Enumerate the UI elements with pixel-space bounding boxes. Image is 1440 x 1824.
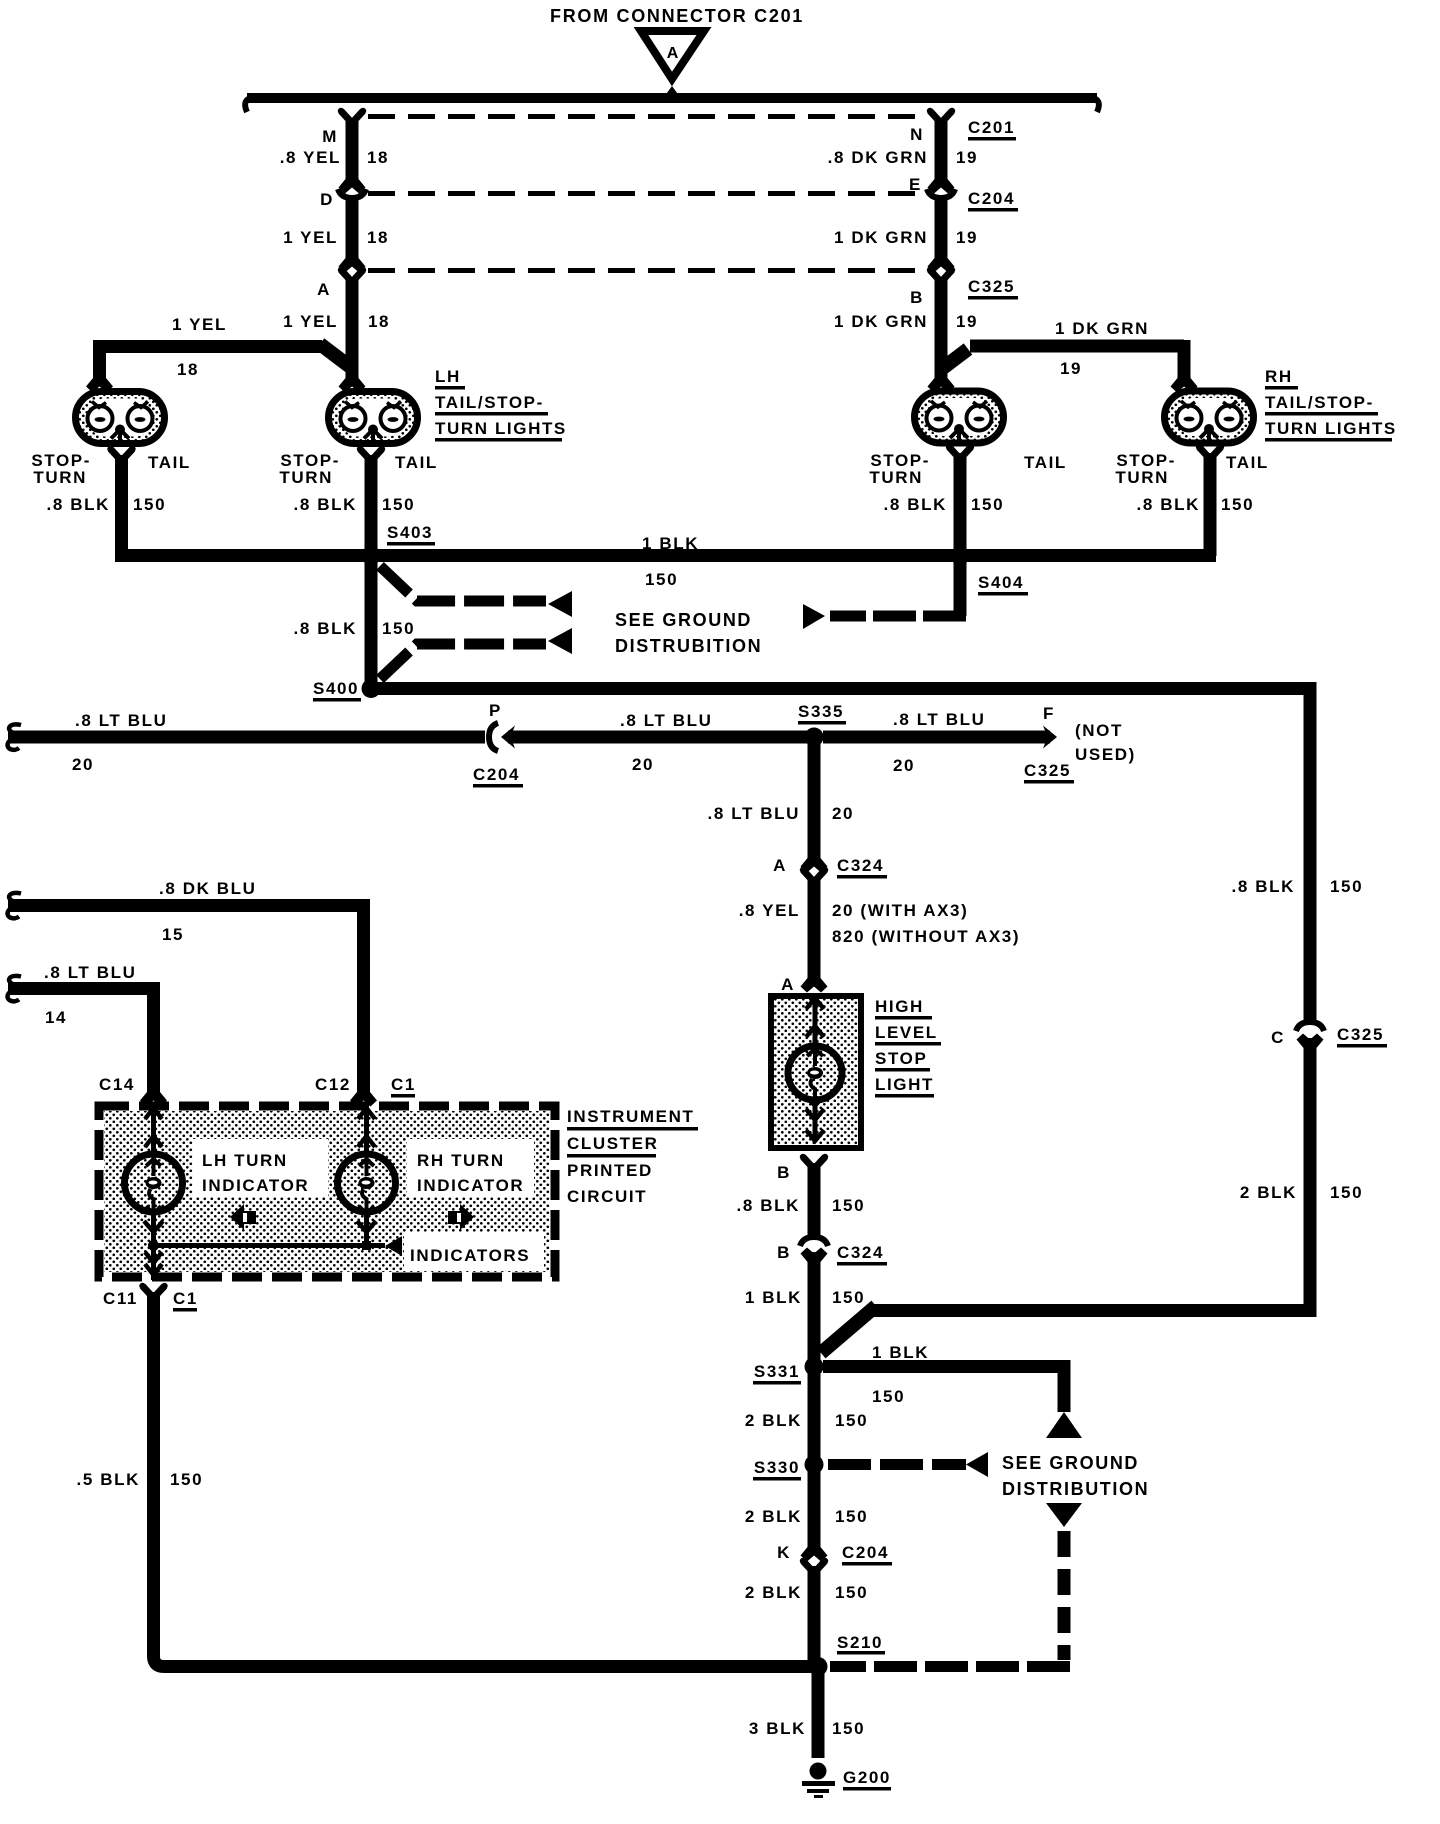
svg-text:.8 LT BLU: .8 LT BLU [708, 804, 800, 823]
svg-text:HIGH: HIGH [875, 997, 924, 1016]
svg-text:M: M [322, 127, 338, 146]
svg-text:C325: C325 [1024, 761, 1071, 780]
svg-text:.8 DK GRN: .8 DK GRN [828, 148, 928, 167]
svg-text:.5 BLK: .5 BLK [77, 1470, 140, 1489]
svg-text:150: 150 [835, 1507, 868, 1526]
dashed ground lead lower from S400 [380, 628, 572, 679]
connector K (C204) female half [800, 1558, 828, 1573]
svg-text:TURN LIGHTS: TURN LIGHTS [1265, 419, 1397, 438]
lamp2 ground drop .8 BLK 150 [365, 455, 378, 550]
svg-text:TAIL: TAIL [148, 453, 191, 472]
svg-text:TURN: TURN [1115, 468, 1169, 487]
svg-text:C324: C324 [837, 1243, 884, 1262]
lamp1 labels STOP-TURN TAIL [31, 451, 191, 487]
svg-text:S210: S210 [837, 1633, 883, 1652]
ground bus wire [115, 549, 1216, 562]
dashed connector row C325 [368, 268, 928, 273]
stop light ground fork B [800, 1154, 828, 1169]
bus wire from connector A [245, 93, 1099, 112]
connector B (C325) female half [927, 267, 955, 282]
svg-text:.8 YEL: .8 YEL [280, 148, 341, 167]
lamp4 ground drop .8 BLK 150 [1204, 453, 1217, 556]
svg-text:C1: C1 [391, 1075, 416, 1094]
svg-text:C204: C204 [968, 189, 1015, 208]
svg-text:B: B [777, 1163, 791, 1182]
svg-text:2 BLK: 2 BLK [745, 1583, 802, 1602]
svg-text:150: 150 [382, 619, 415, 638]
LH arrow icon [230, 1204, 256, 1230]
svg-text:S404: S404 [978, 573, 1024, 592]
svg-text:(NOT: (NOT [1075, 721, 1123, 740]
lamp1 ground drop .8 BLK 150 [115, 455, 128, 556]
svg-text:.8 BLK: .8 BLK [47, 495, 110, 514]
connector K (C204) male half [801, 1533, 828, 1562]
svg-text:TAIL: TAIL [395, 453, 438, 472]
svg-text:C201: C201 [968, 118, 1015, 137]
svg-text:DISTRIBUTION: DISTRIBUTION [1002, 1479, 1149, 1499]
svg-text:.8 LT BLU: .8 LT BLU [44, 963, 136, 982]
svg-text:18: 18 [367, 228, 389, 247]
svg-text:B: B [910, 288, 924, 307]
lamp3 ground drop .8 BLK 150 [954, 453, 967, 550]
wire N to E (.8 DK GRN) [935, 118, 948, 176]
LH indicator lower wire [144, 1212, 163, 1280]
wire C204 to S335 .8 LT BLU 20 [512, 731, 814, 744]
connector D (C204) female half [338, 189, 366, 198]
lamp3 ground fork [946, 444, 974, 459]
text 20 (WITH AX3) 820 (WITHOUT AX3) [832, 901, 1020, 946]
svg-text:DISTRUBITION: DISTRUBITION [615, 636, 762, 656]
svg-text:1 YEL: 1 YEL [283, 228, 338, 247]
dashed ground lead upper from S403 [380, 566, 572, 617]
connector C (C325) male half [1297, 1034, 1324, 1063]
splice S335 [798, 702, 846, 747]
svg-text:F: F [1043, 704, 1055, 723]
label C204 [473, 765, 523, 788]
right side vertical .8 BLK 150 [1304, 682, 1317, 1022]
svg-text:INDICATOR: INDICATOR [417, 1176, 524, 1195]
svg-text:LEVEL: LEVEL [875, 1023, 938, 1042]
svg-text:C1: C1 [173, 1289, 198, 1308]
connector N terminal (fork) [927, 108, 955, 123]
label plate LH TURN INDICATOR [193, 1139, 328, 1197]
svg-text:TAIL: TAIL [1024, 453, 1067, 472]
svg-text:.8 BLK: .8 BLK [737, 1196, 800, 1215]
label plate INDICATORS [404, 1232, 544, 1270]
svg-text:3 BLK: 3 BLK [749, 1719, 806, 1738]
svg-text:19: 19 [1060, 359, 1082, 378]
wire M to D (.8 YEL) [346, 118, 359, 176]
svg-text:LH: LH [435, 367, 461, 386]
svg-text:S330: S330 [754, 1458, 800, 1477]
svg-text:C324: C324 [837, 856, 884, 875]
svg-text:TAIL/STOP-: TAIL/STOP- [435, 393, 544, 412]
label C324 [837, 1243, 887, 1266]
main lt blu row: clip end [8, 724, 21, 749]
svg-text:A: A [667, 45, 680, 62]
svg-text:150: 150 [832, 1719, 865, 1738]
lamp2 labels STOP-TURN TAIL [279, 451, 438, 487]
svg-text:.8 LT BLU: .8 LT BLU [620, 711, 712, 730]
svg-text:150: 150 [1221, 495, 1254, 514]
connector C (C325) female half [1296, 1022, 1324, 1031]
wire S331 to S330 2 BLK 150 [808, 1367, 821, 1460]
lamp1 ground fork [107, 446, 135, 461]
svg-text:20: 20 [632, 755, 654, 774]
S330 dashed ground lead [828, 1452, 988, 1477]
lamp4 labels STOP-TURN TAIL [1115, 451, 1269, 487]
label RH TAIL/STOP-TURN LIGHTS [1265, 367, 1397, 442]
svg-text:14: 14 [45, 1008, 67, 1027]
label LH TAIL/STOP-TURN LIGHTS [435, 367, 567, 442]
connector M terminal (fork) [338, 108, 366, 123]
svg-text:TAIL/STOP-: TAIL/STOP- [1265, 393, 1374, 412]
ground G200 [802, 1763, 835, 1799]
svg-text:150: 150 [1330, 1183, 1363, 1202]
svg-text:1 BLK: 1 BLK [745, 1288, 802, 1307]
connector P (C204) male half [501, 726, 520, 749]
indicators terminal triangle [385, 1236, 402, 1256]
svg-text:20: 20 [832, 804, 854, 823]
svg-text:LH TURN: LH TURN [202, 1151, 288, 1170]
svg-text:20 (WITH AX3): 20 (WITH AX3) [832, 901, 968, 920]
svg-text:.8 LT BLU: .8 LT BLU [893, 710, 985, 729]
svg-text:150: 150 [835, 1583, 868, 1602]
svg-text:S403: S403 [387, 523, 433, 542]
wire S400 to right side run [371, 689, 1304, 696]
svg-text:N: N [910, 125, 924, 144]
RH indicator internal wire top [358, 1108, 375, 1156]
branch wire to RH outer lamp [939, 340, 1184, 372]
svg-text:C204: C204 [842, 1543, 889, 1562]
connector E (C204) female half [927, 189, 955, 198]
svg-text:18: 18 [177, 360, 199, 379]
svg-text:C12: C12 [315, 1075, 351, 1094]
svg-text:CIRCUIT: CIRCUIT [567, 1187, 647, 1206]
lamp1 LH outer tail/stop/turn light [76, 392, 165, 447]
RH indicator lower wire [357, 1212, 376, 1243]
lamp4 ground fork [1196, 444, 1224, 459]
stop light internal wire and bulb [788, 997, 842, 1142]
instrument cluster box [99, 1106, 555, 1277]
off-page triangle A [641, 31, 704, 97]
wire C11 down .5 BLK 150 [154, 1292, 813, 1667]
svg-text:S335: S335 [798, 702, 844, 721]
S404 drop and dashed ground lead [803, 562, 966, 629]
dk blu row: clip end [8, 893, 21, 918]
high level stop light box [771, 996, 861, 1148]
svg-text:.8 BLK: .8 BLK [294, 619, 357, 638]
svg-text:19: 19 [956, 228, 978, 247]
dashed connector row C204 [368, 191, 928, 196]
svg-text:INSTRUMENT: INSTRUMENT [567, 1107, 694, 1126]
wire to C204 .8 LT BLU 20 [8, 731, 485, 744]
svg-text:18: 18 [367, 148, 389, 167]
svg-text:S400: S400 [313, 679, 359, 698]
svg-text:1 DK GRN: 1 DK GRN [1055, 319, 1149, 338]
wire .8 LT BLU 14 to C14 [8, 982, 154, 1086]
svg-text:S331: S331 [754, 1362, 800, 1381]
svg-text:150: 150 [133, 495, 166, 514]
LH turn indicator bulb [125, 1154, 183, 1214]
svg-text:A: A [773, 856, 787, 875]
svg-text:FROM CONNECTOR C201: FROM CONNECTOR C201 [550, 6, 804, 26]
splice S330 [753, 1455, 824, 1481]
svg-text:TURN LIGHTS: TURN LIGHTS [435, 419, 567, 438]
wire C204 to S210 2 BLK 150 [808, 1566, 821, 1662]
splice S404 [951, 546, 1029, 596]
svg-text:1 DK GRN: 1 DK GRN [834, 312, 928, 331]
indicators common wire [148, 1240, 385, 1251]
svg-text:150: 150 [645, 570, 678, 589]
wire S335 down .8 LT BLU 20 [808, 744, 821, 852]
label C325 [1337, 1025, 1387, 1048]
RH arrow icon [448, 1204, 474, 1230]
right side wire to S331 [821, 1306, 876, 1353]
connector A (C324) female half [800, 867, 828, 882]
lamp2 ground fork [357, 446, 385, 461]
LH indicator internal wire top [145, 1108, 162, 1156]
svg-text:.8 BLK: .8 BLK [1232, 877, 1295, 896]
label C1 [173, 1289, 198, 1312]
splice S210 [809, 1633, 886, 1676]
svg-text:CLUSTER: CLUSTER [567, 1134, 658, 1153]
terminal F arrow (not used) [1038, 726, 1057, 749]
connector P (C204) female half [489, 723, 498, 751]
splice S400 [313, 679, 381, 702]
svg-text:.8 LT BLU: .8 LT BLU [75, 711, 167, 730]
svg-text:C325: C325 [968, 277, 1015, 296]
svg-text:RH TURN: RH TURN [417, 1151, 505, 1170]
svg-text:150: 150 [872, 1387, 905, 1406]
svg-text:1 YEL: 1 YEL [172, 315, 227, 334]
svg-text:150: 150 [832, 1196, 865, 1215]
svg-text:A: A [317, 280, 331, 299]
label G200 [843, 1768, 891, 1791]
label C201 [968, 118, 1016, 141]
svg-text:150: 150 [832, 1288, 865, 1307]
connector C11 fork [139, 1283, 167, 1298]
text (NOT USED) [1075, 721, 1136, 764]
svg-text:C325: C325 [1337, 1025, 1384, 1044]
svg-text:STOP: STOP [875, 1049, 927, 1068]
svg-text:150: 150 [170, 1470, 203, 1489]
label C324 [837, 856, 887, 879]
svg-text:C204: C204 [473, 765, 520, 784]
svg-text:1 YEL: 1 YEL [283, 312, 338, 331]
svg-text:2 BLK: 2 BLK [745, 1411, 802, 1430]
svg-text:G200: G200 [843, 1768, 891, 1787]
lamp4 RH outer tail/stop/turn light [1165, 391, 1254, 446]
svg-text:C: C [1271, 1028, 1285, 1047]
svg-text:PRINTED: PRINTED [567, 1161, 653, 1180]
svg-text:18: 18 [368, 312, 390, 331]
S331 branch to ground distribution [823, 1367, 1082, 1439]
splice S403 [362, 523, 436, 565]
svg-text:INDICATOR: INDICATOR [202, 1176, 309, 1195]
terminal arrow C12 [350, 1078, 377, 1107]
svg-text:USED): USED) [1075, 745, 1136, 764]
connector D (C204) male half [339, 165, 366, 194]
svg-text:150: 150 [1330, 877, 1363, 896]
connector B (C325) male half [928, 244, 955, 273]
svg-text:20: 20 [893, 756, 915, 775]
svg-text:A: A [781, 975, 795, 994]
branch wire to left stop lamp [93, 340, 353, 372]
svg-text:19: 19 [956, 312, 978, 331]
right side vertical 2 BLK 150 [872, 1038, 1310, 1311]
svg-text:INDICATORS: INDICATORS [410, 1246, 530, 1265]
terminal arrow into lamp1 [86, 364, 113, 393]
splice S331 [753, 1357, 824, 1385]
svg-text:TURN: TURN [869, 468, 923, 487]
wire C324 to stop light .8 YEL [808, 877, 821, 966]
svg-text:SEE GROUND: SEE GROUND [615, 610, 752, 630]
terminal arrow into stop light [801, 964, 828, 993]
svg-text:TAIL: TAIL [1226, 453, 1269, 472]
svg-text:1 DK GRN: 1 DK GRN [834, 228, 928, 247]
connector B (C324) female half [800, 1237, 828, 1246]
svg-text:SEE GROUND: SEE GROUND [1002, 1453, 1139, 1473]
connector E (C204) male half [928, 165, 955, 194]
svg-text:2 BLK: 2 BLK [1240, 1183, 1297, 1202]
terminal arrow C14 [140, 1078, 167, 1107]
wire A down to LH lamp [346, 277, 359, 371]
text SEE GROUND DISTRIBUTION [1002, 1453, 1149, 1499]
label C204 [842, 1543, 892, 1566]
svg-text:820 (WITHOUT AX3): 820 (WITHOUT AX3) [832, 927, 1020, 946]
wire D to A (1 YEL) [346, 196, 359, 252]
terminal arrow into lamp3 [928, 364, 955, 393]
svg-text:150: 150 [971, 495, 1004, 514]
svg-text:K: K [777, 1543, 791, 1562]
label INSTRUMENT CLUSTER PRINTED CIRCUIT [567, 1107, 698, 1206]
dashed ground distribution return [830, 1503, 1082, 1667]
svg-text:.8 BLK: .8 BLK [1137, 495, 1200, 514]
label C204 [968, 189, 1018, 212]
label C325 [968, 277, 1018, 300]
svg-text:.8 YEL: .8 YEL [739, 901, 800, 920]
svg-text:150: 150 [835, 1411, 868, 1430]
svg-text:RH: RH [1265, 367, 1293, 386]
lamp3 labels STOP-TURN TAIL [869, 451, 1067, 487]
wire C324 to S331 1 BLK 150 [808, 1252, 821, 1365]
svg-text:D: D [320, 190, 334, 209]
svg-text:20: 20 [72, 755, 94, 774]
svg-text:2 BLK: 2 BLK [745, 1507, 802, 1526]
label HIGH LEVEL STOP LIGHT [875, 997, 941, 1098]
lamp2 LH inner tail/stop/turn light [329, 392, 418, 447]
label C1 [391, 1075, 416, 1098]
svg-text:LIGHT: LIGHT [875, 1075, 934, 1094]
wire S335 to F .8 LT BLU 20 [823, 731, 1042, 744]
wire S210 to G200 3 BLK 150 [812, 1670, 825, 1758]
text SEE GROUND DISTRUBITION [615, 610, 762, 656]
svg-text:E: E [909, 175, 922, 194]
wire S330 to C204 2 BLK 150 [808, 1469, 821, 1540]
svg-text:TURN: TURN [33, 468, 87, 487]
terminal arrow into lamp4 [1171, 364, 1198, 393]
svg-text:C14: C14 [99, 1075, 135, 1094]
svg-text:P: P [489, 701, 502, 720]
svg-text:19: 19 [956, 148, 978, 167]
connector B (C324) male half [801, 1248, 828, 1277]
connector A (C324) male half [801, 844, 828, 873]
svg-text:1 BLK: 1 BLK [872, 1343, 929, 1362]
wire S403 to S400 .8 BLK 150 [365, 562, 378, 689]
connector A (C325) female half [338, 267, 366, 282]
svg-text:.8 DK BLU: .8 DK BLU [159, 879, 257, 898]
lamp3 RH inner tail/stop/turn light [915, 391, 1004, 446]
svg-text:B: B [777, 1243, 791, 1262]
wire .8 DK BLU 15 to C12 [8, 899, 364, 1086]
label C325 [1024, 761, 1074, 784]
connector A (C325) male half [339, 244, 366, 273]
svg-text:150: 150 [382, 495, 415, 514]
label plate RH TURN INDICATOR [407, 1139, 534, 1197]
svg-text:.8 BLK: .8 BLK [294, 495, 357, 514]
svg-text:.8 BLK: .8 BLK [884, 495, 947, 514]
terminal arrow into lamp2 [339, 364, 366, 393]
lt blu row: clip end [8, 976, 21, 1001]
svg-text:TURN: TURN [279, 468, 333, 487]
wire E to B (1 DK GRN) [935, 196, 948, 252]
dashed connector row C201 [368, 114, 928, 119]
RH turn indicator bulb [338, 1154, 396, 1214]
wire B down to RH inner lamp [935, 277, 948, 371]
svg-text:1 BLK: 1 BLK [642, 534, 699, 553]
wire B to C324 .8 BLK 150 [808, 1163, 821, 1237]
svg-text:C11: C11 [103, 1289, 138, 1308]
svg-text:15: 15 [162, 925, 184, 944]
